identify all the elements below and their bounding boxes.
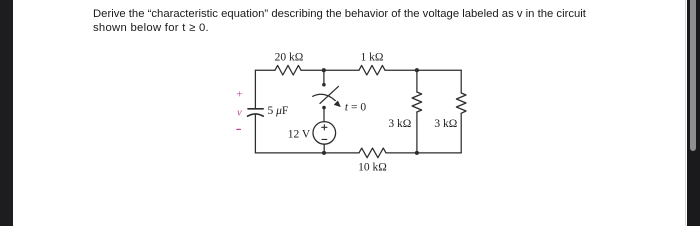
svg-text:1 kΩ: 1 kΩ	[361, 52, 384, 64]
switch actuation arc arrow	[313, 94, 341, 106]
voltage source plus sign	[322, 125, 327, 130]
scrollbar thumb	[690, 0, 696, 151]
wire bottom right segment	[386, 152, 461, 154]
right dark sidebar	[687, 0, 700, 226]
wire left vertical upper segment	[254, 70, 256, 108]
junction node bottom inner branch	[415, 151, 419, 155]
capacitor C 5uF top plate	[248, 108, 263, 110]
wire right outer vertical lower	[460, 113, 462, 153]
wire switch upper stub	[323, 70, 325, 83]
voltage source V1 12V circle	[313, 122, 336, 145]
label 5 uF	[268, 105, 289, 117]
capacitor C 5uF curved plate	[248, 114, 264, 116]
polarity minus label	[236, 128, 241, 130]
resistor 20 kOhm	[275, 65, 301, 75]
resistor 1 kOhm	[359, 65, 385, 75]
left dark sidebar	[0, 0, 13, 226]
wire right outer vertical upper	[460, 70, 462, 93]
svg-text:v: v	[237, 107, 242, 118]
wire switch to source stub	[323, 110, 325, 122]
svg-text:+: +	[236, 88, 242, 100]
switch lower contact dot	[322, 106, 326, 110]
label 1 kOhm	[361, 52, 384, 64]
polarity plus label	[236, 88, 242, 100]
wire inner branch vertical upper	[416, 70, 418, 92]
svg-text:20 kΩ: 20 kΩ	[275, 52, 304, 64]
junction node bottom source	[322, 151, 326, 155]
wire top middle segment	[301, 69, 359, 71]
svg-text:3 kΩ: 3 kΩ	[434, 118, 457, 130]
junction node top inner branch	[415, 68, 419, 72]
wire top-left segment	[255, 69, 275, 71]
voltage v label	[237, 107, 242, 118]
switch blade t=0	[320, 86, 338, 103]
svg-text:3 kΩ: 3 kΩ	[388, 118, 411, 130]
resistor 10 kOhm	[359, 148, 386, 158]
wire left vertical lower segment	[254, 114, 256, 153]
resistor 3 kOhm inner	[412, 92, 422, 112]
label 12 V	[288, 128, 311, 140]
switch upper contact dot	[322, 83, 326, 87]
junction node top middle	[322, 68, 326, 72]
label t = 0	[345, 102, 366, 114]
svg-text:t = 0: t = 0	[345, 102, 366, 114]
wire bottom left segment	[255, 152, 359, 154]
label 20 kOhm	[275, 52, 304, 64]
resistor 3 kOhm outer	[456, 93, 466, 113]
wire top right segment	[385, 69, 461, 71]
svg-text:10 kΩ: 10 kΩ	[358, 162, 387, 174]
problem statement text	[93, 7, 633, 36]
label 10 kOhm	[358, 162, 387, 174]
page edge line	[685, 0, 686, 226]
voltage source minus sign	[322, 138, 327, 140]
label 3 kOhm inner	[388, 118, 411, 130]
svg-text:5 μF: 5 μF	[268, 105, 289, 117]
label 3 kOhm outer	[434, 118, 457, 130]
wire inner branch vertical lower	[416, 112, 418, 153]
wire source to bottom stub	[323, 144, 325, 153]
svg-text:12 V: 12 V	[288, 128, 311, 140]
